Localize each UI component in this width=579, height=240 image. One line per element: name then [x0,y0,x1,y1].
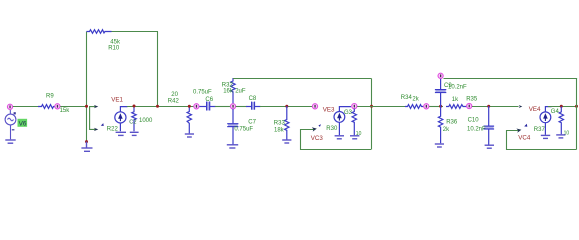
resistor R10 [87,30,112,34]
bus end arrowhead [519,105,523,108]
svg-text:16k: 16k [223,89,234,95]
vertical wire x=371 (rail down through bus to loop bottom) [371,79,373,150]
VC4 arrowhead [516,129,521,133]
VC3 sense loop [301,130,372,150]
VC4 sense loop [507,131,577,150]
svg-text:VE3: VE3 [323,107,335,114]
ground (G4 resistor) [556,135,565,138]
source VE1 (controlled source circle) [115,107,128,132]
wire bubble to junction x=371 and on to R34 [357,106,405,108]
resistor at G4 output (vertical) [559,107,563,135]
wire G4 top to right rail [548,106,577,108]
ground (left rail) [81,142,92,152]
V6 label (highlighted) [18,119,28,127]
wire node to C8 [236,106,247,108]
svg-text:VC3: VC3 [311,135,324,142]
svg-text:VE4: VE4 [529,106,541,113]
node bubble above R30 resistor [352,104,357,109]
svg-text:R33: R33 [274,121,286,127]
svg-text:C10: C10 [468,117,480,123]
ground (R42) [185,134,194,137]
VC4 plus mark [524,124,527,127]
svg-text:0.75uF: 0.75uF [193,89,212,95]
capacitor C8 [246,102,261,110]
wire C8 to R33 junction and on to VE3 node [260,106,312,108]
capacitor C9 (vertical, up) [435,79,446,106]
ground (R33) [282,140,291,143]
capacitor C6 [199,102,215,111]
junction at input bus [85,105,88,108]
resistor R9 [38,105,55,109]
VC3 plus mark [318,124,321,127]
svg-text:R36: R36 [446,120,458,126]
top rail wire (C9 to far right) [444,78,578,80]
junction at box right rail [156,105,159,108]
wire bubble to C9/R36 junction [429,106,443,108]
node bubble after R35 [467,103,472,108]
ground (1000 resistor) [130,132,139,135]
node bubble after R34 [424,104,429,109]
VE1 arrow inside [119,117,121,121]
svg-text:R34: R34 [401,95,413,101]
svg-text:10.2nF: 10.2nF [448,84,467,90]
left rail wire (box left side down to ground) [86,32,88,142]
wire VE1 corner to C6 node [127,106,194,108]
junction at ground drop [85,140,88,143]
svg-text:R9: R9 [46,94,54,100]
bracket plus mark [101,123,104,126]
ground (V6) [5,140,15,143]
wire R9 node to junction [60,106,87,108]
svg-text:2k: 2k [443,127,450,133]
junction at 1000 resistor top [133,105,136,108]
node bubble after R42 [194,104,199,109]
svg-text:V6: V6 [19,121,27,128]
V6 plus dot [14,112,16,114]
top rail wire (R32 to VC3 drop) [233,78,372,80]
capacitor C10 (vertical) [484,106,495,145]
svg-text:2k: 2k [412,97,419,103]
node bubble after R9 [55,104,60,109]
V6 minus mark [12,129,15,130]
source G4 circle [540,107,552,135]
wire box right rail [157,32,159,107]
resistor 1000 (vertical) [132,106,136,131]
resistor R33 (vertical) [285,106,289,140]
svg-text:C7: C7 [248,119,256,125]
svg-text:45k: 45k [110,39,121,45]
node bubble VE3 input [312,104,317,109]
ground (G3 resistor) [350,136,359,139]
svg-text:C6: C6 [205,97,213,103]
svg-text:R35: R35 [466,97,478,103]
svg-text:R37: R37 [534,127,546,133]
resistor at G3 output (vertical) [352,109,356,136]
svg-text:10.2nF: 10.2nF [467,126,486,132]
svg-text:G4: G4 [551,109,560,115]
source G3 circle [334,107,351,135]
svg-text:10: 10 [564,131,570,137]
resistor R32 (vertical, to top rail) [231,78,235,103]
node bubble at C9 top [438,73,443,78]
svg-text:1k: 1k [452,97,459,103]
capacitor C7 (vertical) [227,109,238,144]
svg-text:2uF: 2uF [235,89,246,95]
VC3 arrowhead [312,127,317,131]
bracket arrowheads [94,105,98,108]
svg-text:0.75uF: 0.75uF [234,126,253,132]
right rail (top rail down through bus to loop bottom) [576,79,578,150]
junction + node bubble at R32 bottom [232,105,235,108]
svg-text:R30: R30 [326,126,338,132]
resistor R35 [446,105,466,109]
AC source V6 [5,110,16,140]
ground (VE1) [116,132,126,135]
svg-text:15k: 15k [60,108,71,114]
ground (G3 circle) [335,136,344,139]
ground (C10) [485,145,494,148]
ground (R36) [435,144,444,147]
node 1 bubble [7,104,12,109]
resistor R36 (vertical) [438,106,442,143]
wire C6 to R32 node [215,106,231,108]
svg-text:VE1: VE1 [111,96,123,103]
wire box top [112,31,159,33]
svg-text:C2: C2 [129,119,136,125]
ground (G4 circle) [541,135,550,138]
svg-text:18k: 18k [274,128,285,134]
svg-text:C8: C8 [249,96,257,102]
wire V6 to R9 [13,106,39,108]
ground (C7) [227,145,238,148]
svg-text:VC4: VC4 [518,135,531,142]
svg-text:20: 20 [171,92,178,98]
svg-text:1000: 1000 [139,118,153,124]
VE1 sense bracket [90,107,96,130]
svg-text:R10: R10 [108,46,120,52]
resistor R42 (vertical) [187,106,191,133]
resistor R34 [405,105,423,109]
wire R35 node to VC4 arrow end [472,106,519,108]
svg-text:R42: R42 [168,98,180,104]
